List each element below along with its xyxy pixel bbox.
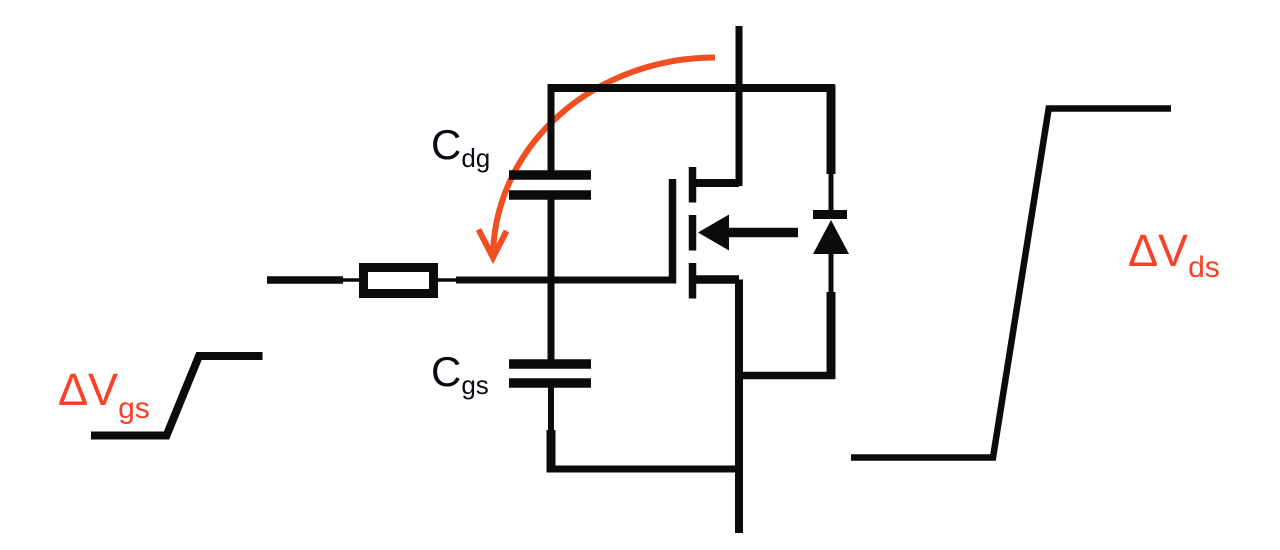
wire: Cdg top lead: [548, 85, 555, 172]
arrow: Miller coupling curve (drain to gate): [479, 58, 716, 259]
svg-text:ΔVds: ΔVds: [1128, 225, 1220, 284]
source connection: [692, 275, 739, 284]
wire: diode to source connector: [739, 372, 835, 380]
wire: drain top terminal vertical: [736, 26, 743, 186]
svg-text:Cgs: Cgs: [431, 348, 489, 400]
wire: top rail from Cdg branch to diode branch: [548, 84, 835, 92]
channel bar: drain segment: [689, 167, 697, 203]
wire: diode bottom lead: [829, 252, 834, 379]
channel bar: source segment: [689, 263, 697, 299]
wire: resistor to gate: [437, 278, 676, 282]
wire: Cdg bottom lead to gate node: [548, 200, 555, 281]
wire: gate input lead (left of resistor): [267, 276, 360, 284]
svg-text:ΔVgs: ΔVgs: [58, 364, 150, 425]
capacitor Cdg: [509, 175, 591, 195]
resistor R (gate resistor): [364, 268, 434, 294]
waveform dVgs step: [91, 356, 263, 436]
anode triangle: [813, 220, 849, 254]
wire: Cgs bottom lead: [548, 388, 554, 473]
waveform dVds step: [851, 109, 1171, 458]
svg-text:Cdg: Cdg: [431, 121, 490, 173]
wire: gate node to Cgs top lead: [548, 280, 555, 360]
body arrow line: [724, 228, 798, 238]
capacitor Cgs: [509, 364, 591, 383]
drain connection: [692, 179, 739, 187]
channel bar: body segment: [689, 215, 697, 251]
diode D (body diode): [813, 215, 849, 255]
wire: bottom return to source: [548, 466, 740, 473]
gate bar: [669, 179, 677, 284]
wire: source down lead: [735, 280, 743, 534]
transistor Q1 (n-channel MOSFET): [673, 167, 799, 299]
body arrow head: [698, 215, 729, 251]
wire: diode branch top lead: [827, 85, 836, 213]
cathode bar: [813, 210, 847, 219]
